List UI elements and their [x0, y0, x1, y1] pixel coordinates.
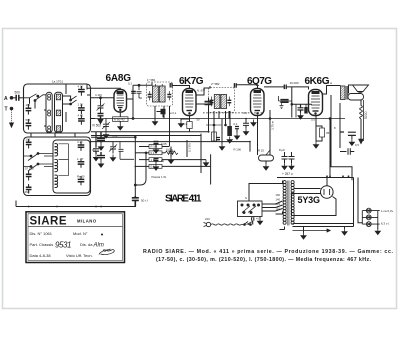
tube V1 6A8G envelope: [114, 90, 127, 113]
S2 switch arm 2: [24, 163, 54, 171]
svg-text:4 10: 4 10: [77, 140, 83, 144]
svg-text:1a 1T01: 1a 1T01: [52, 80, 63, 84]
title block rule: [28, 225, 123, 227]
pilot lamp L1: [366, 208, 371, 213]
mains switch: [247, 222, 253, 225]
svg-text:0,1 50t: 0,1 50t: [188, 143, 192, 152]
vertical 201: [200, 134, 202, 174]
filter cap 8uF no2: [289, 152, 295, 170]
AGC cap stack 2: [92, 148, 105, 167]
screen feed wire: [329, 119, 331, 178]
lamp ground: [375, 224, 380, 235]
wire box S1 to grid bus: [91, 97, 114, 99]
svg-text:2N2: 2N2: [25, 190, 31, 194]
S2 left cap a: [26, 171, 32, 181]
svg-text:Alm: Alm: [93, 243, 104, 249]
svg-text:0,3: 0,3: [183, 122, 187, 126]
title block signature: [99, 249, 114, 255]
IF1 bottom feeds: [155, 106, 164, 119]
vertical 187: [187, 140, 192, 157]
dashed AVC line: [203, 112, 262, 114]
S1 right switch: [63, 96, 77, 105]
main bus y117: [95, 118, 345, 120]
S2 left cap b: [26, 184, 32, 194]
AVC resistor R4: [135, 165, 212, 169]
title block dot: [101, 234, 103, 236]
svg-text:SIARE: SIARE: [30, 216, 67, 228]
svg-text:6Q7G: 6Q7G: [247, 76, 272, 87]
svg-text:160: 160: [276, 193, 281, 197]
speaker cone LS: [353, 85, 369, 93]
S1 inner shield box right: [55, 92, 63, 132]
band switch coil box S1 (RF): [24, 84, 91, 133]
svg-text:220: 220: [205, 217, 210, 221]
padder cap C3: [109, 142, 117, 162]
svg-text:R 106: R 106: [234, 148, 242, 152]
S2 top left cap 100: [26, 138, 32, 149]
screen dropper cluster: [291, 104, 312, 120]
lamp labels: [381, 209, 394, 226]
PS ground 2: [342, 227, 347, 236]
6Q7G plate coupling wire: [264, 87, 309, 118]
S2 osc coil spring 1: [55, 144, 58, 156]
S2 trimmer 1-47: [77, 157, 84, 168]
6Q7G grid network: [258, 110, 275, 155]
AVC resistor R1: [139, 145, 169, 149]
svg-text:RADIO SIARE. — Mod. « 411 » pr: RADIO SIARE. — Mod. « 411 » prima serie.…: [143, 249, 394, 255]
padding caps near IF1: [131, 91, 136, 93]
6K7G bias caps: [168, 147, 173, 164]
zigzag resistor 0,05: [165, 148, 178, 155]
diode detector wires below IF2: [203, 111, 241, 166]
lamp ladder rungs: [362, 211, 379, 225]
6K7G screen wire: [196, 103, 210, 105]
svg-text:9531: 9531: [55, 241, 72, 250]
S1 coil blobs right: [56, 94, 60, 131]
B+ rail right drop: [353, 178, 355, 227]
S2 osc coil spring 3: [55, 175, 58, 187]
svg-text:1 30: 1 30: [78, 103, 84, 107]
IF transformer T3 can (2nd IF): [209, 88, 235, 113]
6A8G top cap wire: [87, 86, 120, 90]
power transformer T5 core: [288, 181, 289, 226]
electrolytic blob: [157, 109, 166, 118]
svg-text:R 25: R 25: [258, 149, 264, 153]
svg-text:SIARE 411: SIARE 411: [165, 193, 202, 204]
transformer primary top wire: [249, 181, 283, 202]
coupling capacitor C10: [284, 81, 299, 89]
svg-text:+ 257 v.: + 257 v.: [282, 172, 293, 176]
svg-text:0,5: 0,5: [151, 165, 155, 169]
svg-text:0,1: 0,1: [234, 122, 238, 126]
6K6G cathode network: [313, 116, 331, 149]
S2 switch arm 1: [24, 153, 54, 161]
antenna capacitor 500: [15, 91, 24, 101]
svg-text:125: 125: [276, 202, 281, 206]
tube V2 6K7G envelope: [183, 89, 197, 116]
lamp riser wire: [358, 178, 362, 223]
svg-text:50 t.f: 50 t.f: [141, 199, 148, 203]
mains voltage selector box: [238, 201, 263, 217]
6Q7G top cap wire: [236, 85, 258, 89]
svg-text:4 110: 4 110: [95, 93, 102, 97]
svg-text:Data 4-8-38: Data 4-8-38: [30, 253, 52, 258]
svg-text:N. 677: N. 677: [197, 89, 206, 93]
IF1 top cap capacitor: [170, 83, 172, 88]
tuning gang C2: [102, 119, 110, 139]
AVC resistor R2: [135, 151, 165, 155]
svg-text:Mod. N°: Mod. N°: [73, 231, 88, 236]
svg-text:0,5: 0,5: [355, 143, 359, 147]
svg-text:L.ca 6,3v: L.ca 6,3v: [381, 209, 394, 213]
IF transformer T2 can (1st IF): [147, 82, 173, 106]
S2 trimmer 4 10: [77, 140, 84, 151]
AVC resistor chain row1: [91, 136, 251, 196]
power transformer T5 primary winding: [283, 181, 286, 225]
heater run wire: [293, 229, 331, 232]
svg-text:(17-50), c. (30-50), m. (210-5: (17-50), c. (30-50), m. (210-520), l. (7…: [156, 257, 372, 263]
svg-text:110: 110: [276, 207, 281, 211]
svg-text:MILANO: MILANO: [77, 219, 97, 224]
decoupling cap stack 1: [153, 142, 166, 154]
selector ground: [257, 217, 262, 225]
svg-text:50: 50: [139, 96, 143, 100]
AVC row y135.5: [91, 135, 201, 137]
svg-text:5000: 5000: [364, 111, 368, 119]
misc tiny labels: [95, 78, 359, 221]
transformer secondary bottom wires: [293, 224, 354, 227]
title block inner border: [28, 214, 123, 261]
S1 left cap 575: [26, 118, 32, 130]
svg-text:Visto Uff. Tecn.: Visto Uff. Tecn.: [66, 253, 93, 258]
filter cap 8uF no1: [279, 148, 288, 170]
6K7G cathode: [178, 116, 192, 132]
tone capacitor C13: [340, 148, 354, 155]
selector to transformer tap wires: [262, 201, 283, 214]
svg-text:3,75 m: 3,75 m: [271, 120, 275, 130]
5Y3G plate feed wire: [326, 178, 328, 187]
S1 trimmer 1 30: [78, 103, 85, 115]
S1 switch arm top: [24, 94, 47, 109]
lamp feed wire: [353, 223, 355, 225]
svg-text:a 0,1: a 0,1: [170, 111, 177, 115]
S1 trimmer 4 40: [78, 113, 85, 124]
S2 inner shield box: [53, 140, 90, 193]
vertical 210.6: [210, 154, 212, 184]
antenna terminal A: [4, 96, 16, 102]
pilot lamp L3: [366, 222, 371, 227]
chassis bus left stub: [15, 201, 17, 207]
AVC resistor R3: [139, 158, 206, 162]
transformer HT bottom wire: [280, 227, 285, 230]
svg-text:5Y3G: 5Y3G: [298, 195, 321, 205]
OT B wire: [339, 103, 341, 148]
svg-text:0,1: 0,1: [92, 148, 96, 152]
decoupling cap stack 2: [153, 159, 164, 171]
tube V4 6K6G envelope: [309, 90, 323, 116]
transformer tap labels: [276, 193, 281, 211]
S2 internal wires: [44, 144, 69, 176]
6A8G grid wire: [91, 131, 210, 133]
svg-text:4 10: 4 10: [78, 84, 84, 88]
svg-text:50: 50: [197, 118, 201, 122]
chassis end capacitor 50: [132, 196, 148, 207]
svg-text:6,3 v.l.: 6,3 v.l.: [381, 222, 390, 226]
6A8G plate line to IF1: [133, 83, 152, 86]
svg-text:1° 5B1: 1° 5B1: [147, 78, 156, 82]
5Y3G filament loop wires: [292, 189, 337, 216]
IF1 secondary return: [169, 106, 171, 147]
S1 inner shield box left: [46, 92, 52, 132]
svg-text:500: 500: [15, 91, 21, 95]
speaker field coil: [348, 94, 364, 101]
svg-text:a 8 w: a 8 w: [325, 81, 333, 85]
6K7G top cap wire: [172, 83, 190, 89]
grid leak cap: [279, 96, 292, 109]
rail junction dots: [326, 175, 349, 177]
svg-text:Dis. N° 1061: Dis. N° 1061: [30, 231, 53, 236]
svg-text:Dis. da: Dis. da: [80, 242, 93, 247]
grid cap cluster x246: [243, 118, 249, 135]
S1 left cap 100: [26, 103, 32, 115]
S1 trimmer 4 10: [78, 84, 85, 96]
field coil winding: [359, 100, 364, 143]
svg-text:0,1: 0,1: [151, 151, 155, 155]
svg-text:2° 5B2: 2° 5B2: [211, 82, 220, 86]
S2 trimmer Re 50: [77, 174, 85, 185]
6A8G plate wire to IF1: [127, 85, 134, 118]
svg-text:4 t: 4 t: [256, 217, 259, 221]
IF2 bottom feeds: [219, 111, 229, 119]
svg-text:1- 47: 1- 47: [77, 157, 84, 161]
B+ rail: [277, 177, 354, 179]
tuning gang C1: [97, 97, 105, 113]
S1 coil blobs left: [48, 94, 51, 132]
wire box S1 mid to bus: [91, 118, 95, 120]
svg-text:10.000: 10.000: [290, 81, 300, 85]
electrolytic cap at 6A8G grid: [93, 113, 104, 128]
6Q7G cathode ground: [251, 120, 256, 127]
lamp ladder rails: [362, 211, 378, 225]
svg-text:Part. Chassis: Part. Chassis: [30, 242, 54, 247]
band switch coil box S2 (oscillator): [24, 137, 91, 196]
tube V3 6Q7G envelope: [251, 89, 265, 116]
svg-text:R 502: R 502: [93, 124, 102, 128]
title block outer border: [26, 212, 125, 263]
volume potentiometer P1: [259, 150, 274, 170]
OT plate return wire: [331, 95, 352, 180]
6K7G plate to IF2: [196, 86, 210, 95]
mains plug and cord: [204, 222, 252, 227]
IF2 top cap capacitor: [234, 83, 236, 88]
pilot lamp L2: [366, 215, 371, 220]
svg-text:Piastra 1 W: Piastra 1 W: [152, 175, 167, 179]
6K6G plate wire to OT: [323, 86, 341, 95]
PS ground 1: [301, 227, 306, 240]
S1 internal wires: [44, 84, 91, 126]
screen bypass cap 0,1: [205, 98, 213, 133]
output transformer T4: [341, 86, 348, 100]
power transformer T5 secondary winding: [291, 181, 294, 225]
6A8G cathode resistor R 60-40: [113, 112, 129, 130]
chassis bus wire: [16, 206, 136, 208]
inter-box connector wires: [31, 133, 75, 137]
svg-text:1 MΩ: 1 MΩ: [151, 158, 158, 162]
tube V5 5Y3G envelope: [321, 186, 334, 199]
hum cap C12: [340, 132, 356, 146]
earth terminal T: [5, 107, 14, 128]
svg-text:4 40: 4 40: [78, 113, 84, 117]
S2 osc coil spring 2: [55, 159, 58, 171]
chassis bus junction dots: [28, 206, 102, 208]
svg-text:S: S: [245, 196, 247, 200]
svg-text:140: 140: [276, 198, 281, 202]
osc cap C4: [119, 142, 135, 160]
cap column x96: [93, 132, 99, 161]
line filter cap: [252, 217, 260, 225]
svg-text:0,5: 0,5: [311, 118, 315, 122]
svg-text:T: T: [5, 107, 8, 113]
svg-text:57 103: 57 103: [25, 167, 34, 171]
svg-text:0,1: 0,1: [128, 82, 132, 86]
svg-text:A: A: [4, 96, 8, 102]
svg-text:8 μF: 8 μF: [279, 148, 285, 152]
speaker voice coil wires: [349, 85, 353, 94]
AGC cap stack 1: [97, 132, 118, 150]
svg-text:100: 100: [26, 138, 31, 142]
svg-text:0,05: 0,05: [161, 142, 167, 146]
svg-text:0,1: 0,1: [243, 111, 247, 115]
gnd below bus at 155: [152, 119, 157, 126]
svg-text:R 60-40: R 60-40: [114, 117, 125, 121]
